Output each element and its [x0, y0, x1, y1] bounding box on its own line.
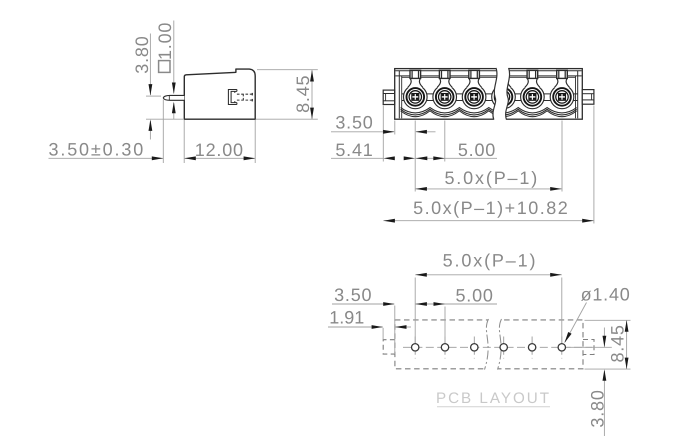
screw 4 head rings [495, 88, 513, 106]
screw position 5 wire funnel neck [525, 78, 540, 90]
dimension 3.80 (pin to bottom) [132, 34, 152, 140]
dimension 3.50 (pcb) [332, 285, 395, 306]
front view inner walls [399, 71, 577, 119]
screw 4 cross recess [500, 94, 507, 101]
extension line body left (B) [394, 121, 396, 135]
svg-text:5.0x(P–1): 5.0x(P–1) [444, 168, 539, 188]
pcb break gap white-out [485, 319, 502, 371]
extension line hole6 vertical [561, 278, 563, 344]
drill hole 2 [441, 344, 448, 351]
extension line right tab (F) [593, 106, 595, 224]
svg-text:3.50: 3.50 [335, 113, 373, 133]
extension line screw1 center (C) [414, 121, 416, 192]
clamp slot lines across body [402, 93, 578, 95]
screw position 2 wire funnel neck [437, 78, 452, 90]
pcb right tab notch (dashed) [583, 340, 594, 355]
screw 2 cross recess [441, 94, 448, 101]
svg-text:5.00: 5.00 [458, 140, 496, 160]
screw 6 head rings [553, 88, 571, 106]
svg-text:3.80: 3.80 [587, 389, 607, 427]
screw 3 head rings [465, 88, 483, 106]
drill hole 1 [412, 344, 419, 351]
svg-text:8.45: 8.45 [293, 75, 313, 113]
screw position 6 wire funnel neck [555, 78, 570, 90]
extension line top right horizontal [257, 69, 318, 71]
dimension 1.91 (pcb, notch offset) [328, 308, 411, 329]
left mounting tab [383, 90, 394, 104]
screw position 6 surround [550, 85, 574, 109]
plug keying tab position 3 [469, 70, 480, 78]
drill hole 4 [500, 344, 507, 351]
svg-text:12.00: 12.00 [195, 140, 244, 160]
PCB LAYOUT underline [437, 406, 550, 408]
extension line hole row right horizontal [567, 346, 612, 348]
screw 1 cross recess [412, 94, 419, 101]
pcb break line right [498, 319, 502, 370]
extension line pin tip vertical [162, 100, 164, 164]
extension line hole1 vertical [414, 278, 416, 344]
pin tip junction line [168, 96, 170, 101]
pcb left tab notch (dashed) [383, 340, 395, 354]
plug keying tab position 6 [557, 70, 568, 78]
pcb footprint outline (dashed) [395, 320, 583, 369]
svg-text:3.50±0.30: 3.50±0.30 [48, 139, 145, 159]
dimension 8.45 (side height) [293, 70, 314, 119]
dimension square 1.00 (pin thickness) [155, 21, 176, 120]
extension line pcb right-bottom horizontal [585, 368, 631, 370]
front view body outline [395, 69, 583, 120]
svg-text:5.0x(P–1): 5.0x(P–1) [443, 251, 538, 271]
svg-text:3.80: 3.80 [132, 35, 152, 73]
plug keying tab position 1 [410, 70, 421, 78]
extension line body left vertical [183, 120, 185, 163]
side view housing body [184, 69, 255, 119]
break gap (white-out) [493, 67, 510, 120]
screw position 4 surround [492, 85, 516, 109]
svg-text:3.50: 3.50 [334, 285, 372, 305]
screw 6 cross recess [559, 94, 566, 101]
screw position 5 surround [521, 85, 545, 109]
break line left [493, 68, 497, 120]
hole 3 vertical centerline [473, 337, 475, 359]
front view top band lines [395, 70, 581, 72]
extension line hole2 vertical [444, 307, 446, 344]
hole 4 vertical centerline [503, 337, 505, 359]
screw position 1 wire funnel neck [408, 78, 423, 90]
dimension 12.00 (body width) [184, 140, 255, 160]
scalloped bottom edge [401, 108, 577, 117]
screw 5 cross recess [529, 94, 536, 101]
screw position 4 wire funnel neck [496, 78, 511, 90]
hole 6 vertical centerline [561, 337, 563, 359]
square symbol for 1.00 [159, 61, 170, 73]
svg-text:8.45: 8.45 [608, 324, 628, 362]
pcb horizontal centerline [403, 346, 592, 348]
plug keying tab position 2 [439, 70, 450, 78]
extension line pin top tick [146, 95, 161, 97]
screw position 3 wire funnel neck [467, 78, 482, 90]
clamp hidden lines (dashed) [237, 93, 252, 102]
dimension 5.41 and 5.00 (front) [331, 140, 497, 160]
hole 2 vertical centerline [444, 337, 446, 359]
extension line screw2 center (D) [444, 121, 446, 162]
extension line body right vertical [254, 120, 256, 163]
dimension 5.0x(P-1)+10.82 (front, total width) [383, 198, 593, 222]
drill hole 3 [471, 344, 478, 351]
extension line pcb notch-left vertical [382, 328, 384, 339]
extension line left tab (A) [382, 106, 384, 162]
screw position 1 surround [404, 85, 428, 109]
svg-text:5.00: 5.00 [455, 286, 493, 306]
svg-text:1.00: 1.00 [155, 22, 175, 60]
screw position 2 surround [433, 85, 457, 109]
screw 5 head rings [524, 88, 542, 106]
screw 2 head rings [436, 88, 454, 106]
break line right [506, 68, 510, 120]
right mounting tab [582, 90, 594, 105]
dimension diameter 1.40 leader [564, 285, 630, 344]
extension line pcb right-top horizontal [585, 319, 631, 321]
screw 3 cross recess [471, 94, 478, 101]
dimension 5.0x(P-1) (front, pole span) [415, 168, 561, 191]
extension line pcb left vertical [394, 306, 396, 355]
dimension 3.50 (front, edge to first pole) [331, 113, 436, 134]
drill hole 6 [558, 344, 565, 351]
plug keying tab position 4 [498, 70, 509, 78]
dimension 5.0x(P-1) (pcb) [415, 251, 561, 277]
clamp contact (internal detail) [228, 90, 237, 105]
hole 1 vertical centerline [414, 337, 416, 359]
side view solder pin [163, 95, 184, 100]
screw 1 head rings [407, 88, 425, 106]
hole 5 vertical centerline [531, 337, 533, 359]
svg-text:5.0x(P–1)+10.82: 5.0x(P–1)+10.82 [413, 198, 569, 218]
plug keying tab position 5 [527, 70, 538, 78]
pcb break line left [485, 319, 489, 370]
extension line body bottom left [146, 118, 184, 120]
extension line screw5 center (E) [561, 121, 563, 192]
dimension 3.50 +/- 0.30 (pin length) [48, 139, 163, 160]
svg-text:ø1.40: ø1.40 [581, 285, 631, 305]
dimension 3.80 (pcb) [587, 328, 607, 437]
svg-text:PCB LAYOUT: PCB LAYOUT [436, 390, 551, 407]
drill hole 5 [528, 344, 535, 351]
dimension 8.45 (pcb) [608, 320, 629, 369]
extension line bottom right horizontal [256, 118, 318, 120]
svg-text:1.91: 1.91 [329, 308, 364, 328]
screw position 3 surround [462, 85, 486, 109]
dimension 5.00 (pcb, hole pitch) [415, 286, 497, 306]
svg-text:5.41: 5.41 [335, 140, 373, 160]
